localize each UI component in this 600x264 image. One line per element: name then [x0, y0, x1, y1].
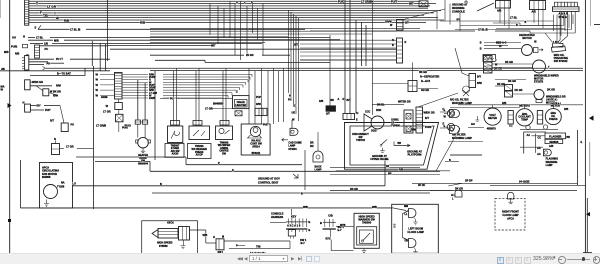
- connector C4 2-pin: [25, 80, 62, 90]
- svg-text:PU: PU: [45, 47, 49, 51]
- labels H FH C UE W: [288, 94, 296, 122]
- svg-text:R/B: R/B: [502, 102, 506, 105]
- svg-text:LT BL /B: LT BL /B: [70, 28, 81, 32]
- svg-text:602898: 602898: [42, 176, 51, 179]
- svg-text:A/R: A/R: [532, 11, 536, 14]
- svg-text:R/W: R/W: [256, 103, 262, 106]
- wires from CS1 right: [122, 74, 252, 101]
- svg-text:GR GR: GR GR: [421, 89, 429, 92]
- svg-text:DK GR: DK GR: [547, 89, 555, 92]
- svg-text:GR/B: GR/B: [101, 95, 108, 99]
- svg-text:J/B: J/B: [1, 68, 5, 71]
- status bar: [0, 253, 600, 264]
- svg-text:GROUND AT: GROUND AT: [452, 3, 468, 7]
- wire S bus: [95, 161, 440, 171]
- svg-text:A3CN: A3CN: [172, 153, 179, 156]
- labels LT GR/B PU/O: [96, 122, 131, 132]
- svg-text:LT BL /B: LT BL /B: [478, 29, 488, 32]
- svg-text:AFCA: AFCA: [507, 218, 514, 221]
- svg-text:BB: BB: [398, 142, 402, 145]
- svg-text:MOTOR: MOTOR: [522, 37, 531, 40]
- svg-text:S/I: S/I: [386, 165, 389, 168]
- svg-text:LT GR/BK: LT GR/BK: [361, 0, 374, 4]
- svg-text:PU: PU: [170, 97, 174, 100]
- svg-text:B: B: [308, 228, 310, 232]
- svg-text:DK BL: DK BL: [377, 104, 385, 107]
- svg-text:LIGHTER: LIGHTER: [235, 104, 246, 107]
- left sheet border: [0, 0, 9, 253]
- svg-text:PU/T: PU/T: [391, 0, 397, 4]
- svg-text:B: B: [480, 48, 482, 51]
- connector strip lower B: [416, 107, 435, 133]
- wires below comb: [455, 11, 575, 40]
- svg-text:TN5718: TN5718: [356, 139, 366, 142]
- component windshield DR motor lamp: [513, 89, 566, 105]
- svg-text:0N99004: 0N99004: [138, 163, 149, 166]
- wire long runs y66-71: [0, 67, 583, 72]
- svg-text:WARNING LAMP: WARNING LAMP: [452, 137, 472, 140]
- connector above SW2: [193, 121, 202, 127]
- svg-text:FH: FH: [288, 98, 292, 102]
- svg-text:1/B: 1/B: [44, 42, 48, 46]
- svg-text:2R GR: 2R GR: [246, 54, 254, 57]
- lamp left boom lower: [403, 238, 418, 254]
- component fuse F1: [106, 99, 123, 110]
- svg-text:SW 1: SW 1: [300, 238, 307, 242]
- right edge tick: [594, 24, 600, 26]
- svg-text:3E0898: 3E0898: [549, 140, 559, 144]
- wire boom feed: [403, 211, 409, 241]
- svg-text:E-7: E-7: [338, 228, 343, 232]
- svg-text:BN49555: BN49555: [213, 103, 224, 106]
- connector 3cell mid: [343, 112, 359, 122]
- svg-text:PU: PU: [71, 124, 75, 127]
- wires into CN12: [300, 40, 397, 60]
- svg-text:R7X: R7X: [326, 237, 331, 241]
- svg-text:GROUND AT GOV: GROUND AT GOV: [258, 177, 280, 181]
- svg-text:LAMP: LAMP: [315, 169, 322, 172]
- wire verticals to switch row: [174, 68, 284, 124]
- wires CS1 left stubs: [96, 72, 115, 97]
- svg-text:BK: BK: [331, 99, 335, 102]
- wire DK GR row: [495, 80, 526, 87]
- svg-text:S/T: S/T: [405, 22, 409, 25]
- svg-text:HI: HI: [534, 40, 537, 43]
- svg-text:BR: BR: [388, 172, 392, 175]
- wires meters top: [450, 102, 583, 111]
- lamp DP: [430, 180, 473, 201]
- svg-text:H: H: [289, 94, 291, 98]
- svg-text:PU/W: PU/W: [425, 126, 432, 129]
- svg-text:W/DK GR: W/DK GR: [32, 81, 43, 84]
- wire bundle mid-left: [150, 28, 420, 42]
- svg-text:LT GR: LT GR: [103, 110, 111, 114]
- svg-text:DK GR: DK GR: [497, 83, 505, 86]
- svg-text:H: H: [357, 112, 359, 115]
- svg-text:R/B: R/B: [564, 108, 568, 111]
- svg-text:A: A: [236, 1, 238, 4]
- zoom slider: [567, 259, 590, 260]
- svg-text:PU/T: PU/T: [45, 109, 51, 112]
- svg-text:AA: AA: [537, 153, 541, 156]
- switch SW3 wiper control: [216, 126, 233, 156]
- svg-text:M/B: M/B: [54, 38, 59, 42]
- component high speed solenoid: [152, 222, 190, 248]
- svg-text:FLASHER: FLASHER: [549, 134, 561, 138]
- svg-text:A/B: A/B: [549, 145, 554, 148]
- svg-text:R/Y: R/Y: [37, 105, 41, 108]
- svg-text:W/B: W/B: [303, 206, 308, 209]
- svg-text:BY: BY: [457, 18, 461, 21]
- labels A J S: [236, 1, 253, 4]
- svg-text:B: B: [308, 220, 310, 224]
- svg-text:BP8211: BP8211: [252, 152, 261, 155]
- svg-text:DR GR: DR GR: [350, 188, 358, 191]
- connector assembly A bottom: [270, 215, 310, 246]
- connector strip CS2 left of wiper: [484, 56, 503, 74]
- switch SW4 RH aux: [241, 124, 270, 155]
- svg-text:PRESS: PRESS: [549, 118, 558, 121]
- svg-text:R/B: R/B: [15, 53, 19, 56]
- wire LT BL /B: [38, 28, 305, 32]
- wire verticals top-right: [437, 0, 573, 43]
- meter eng oil press: [545, 102, 561, 125]
- svg-text:S/T: S/T: [326, 113, 330, 116]
- svg-text:B: B: [480, 41, 482, 44]
- connector CN10 small stack: [505, 85, 523, 98]
- meter volt: [468, 105, 501, 131]
- svg-text:R/B: R/B: [399, 169, 403, 172]
- connector X top: [419, 1, 428, 7]
- svg-text:LT GR: LT GR: [66, 145, 74, 149]
- diagonals to oil press sw: [545, 33, 568, 44]
- svg-text:N: N: [54, 138, 56, 141]
- svg-text:W/TER GR: W/TER GR: [398, 100, 411, 103]
- connector C5 2-pin: [23, 101, 61, 112]
- svg-text:H: H: [213, 236, 215, 239]
- right front flood lamp dashed box: [495, 192, 525, 230]
- svg-text:MM: MM: [404, 205, 408, 208]
- label PU: [160, 97, 232, 100]
- svg-text:R: R: [343, 98, 345, 101]
- svg-text:PU/T: PU/T: [256, 96, 262, 99]
- svg-text:T/B: T/B: [43, 14, 49, 18]
- svg-text:DK GR: DK GR: [419, 71, 427, 74]
- component heater door sw: [136, 137, 151, 165]
- svg-text:R/B: R/B: [140, 21, 146, 25]
- svg-text:W/B: W/B: [395, 223, 397, 228]
- svg-text:C/B: C/B: [328, 214, 333, 218]
- connector 2cell right upper: [455, 48, 482, 88]
- connector C2 small hatched: [4, 44, 48, 58]
- svg-text:1 B 2: 1 B 2: [553, 41, 559, 44]
- border markers: [8, 103, 594, 253]
- wires sw to right: [224, 241, 290, 255]
- connector assembly B bottom: [320, 214, 354, 251]
- svg-text:DK GR: DK GR: [515, 89, 523, 92]
- connector J2 left bar lower: [22, 56, 29, 71]
- svg-text:PU/B: PU/B: [11, 44, 17, 48]
- wires top-right feed: [440, 16, 565, 29]
- svg-text:LT BL: LT BL: [510, 16, 518, 20]
- labels under comb: [559, 11, 568, 18]
- svg-text:B/Y: B/Y: [477, 76, 481, 79]
- ground at gov control seat: [258, 174, 298, 184]
- svg-text:PLATFORM: PLATFORM: [408, 154, 422, 157]
- svg-text:R—DEFROSTER: R—DEFROSTER: [420, 76, 439, 79]
- component back lamp: [301, 132, 323, 196]
- svg-text:TN6000: TN6000: [362, 220, 372, 224]
- component SW I: [213, 236, 224, 255]
- component horn: [364, 0, 385, 133]
- connector heater top: [122, 120, 148, 138]
- svg-text:ET327B: ET327B: [534, 81, 543, 84]
- wire LT BL/B right: [310, 29, 530, 39]
- svg-text:UU: UU: [12, 35, 16, 39]
- svg-text:W7B: W7B: [340, 224, 346, 227]
- svg-text:P: P: [218, 161, 220, 165]
- console harness label: [271, 209, 292, 219]
- wire right E: [470, 130, 590, 185]
- svg-text:R/B: R/B: [319, 100, 323, 103]
- svg-text:LU: LU: [73, 183, 77, 186]
- svg-text:DF DF: DF DF: [418, 184, 426, 187]
- wires below disconnect: [330, 128, 460, 175]
- svg-text:S: S: [35, 26, 37, 30]
- connector strip C6: [255, 96, 267, 116]
- svg-text:SW: SW: [222, 153, 227, 156]
- svg-text:SW 6T9102: SW 6T9102: [554, 59, 568, 63]
- svg-text:W: W: [56, 16, 59, 20]
- svg-text:UPPER FRAME: UPPER FRAME: [370, 158, 389, 161]
- svg-text:LAMP: LAMP: [546, 164, 553, 167]
- scan edge marks: [0, 262, 1, 264]
- lamp air filter left: [443, 107, 455, 117]
- svg-text:DK GR: DK GR: [505, 61, 513, 64]
- component fan motor box: [40, 163, 77, 209]
- svg-text:LT BL: LT BL: [36, 36, 44, 40]
- svg-text:ATB14: ATB14: [252, 146, 260, 149]
- wire vertical runs x140-155: [138, 71, 155, 160]
- svg-text:T: T: [54, 11, 56, 15]
- svg-text:B: B: [449, 159, 451, 162]
- svg-text:B/W: B/W: [477, 82, 482, 85]
- wire vertical cluster x288: [289, 10, 299, 121]
- svg-text:DDD: DDD: [376, 109, 382, 112]
- wire P bus: [76, 157, 302, 165]
- air filter warning lamp label: [450, 86, 472, 105]
- wire vertical runs left: [92, 0, 107, 209]
- zoom in icon: [593, 256, 600, 264]
- wire labels top bundle: [36, 2, 146, 25]
- zoom out icon: [558, 256, 566, 264]
- component MFD oil pressure sw: [551, 46, 568, 63]
- wire LT BL: [12, 35, 330, 40]
- connector above SW1: [171, 121, 180, 127]
- svg-text:WARNING: WARNING: [452, 6, 465, 10]
- svg-text:LL: LL: [405, 213, 408, 216]
- component fuse F2: [103, 110, 123, 122]
- connector CN7 top: [496, 1, 511, 13]
- svg-text:M/B: M/B: [4, 51, 9, 54]
- lamp left boom upper: [404, 209, 418, 225]
- svg-text:AA: AA: [537, 147, 541, 150]
- wire solenoid to sw: [181, 230, 217, 249]
- zoom percent: [533, 256, 553, 262]
- wire vertical drops mid: [210, 1, 263, 60]
- svg-text:GO: GO: [471, 123, 475, 126]
- solenoid enclosure box: [142, 221, 198, 253]
- svg-text:W/T: W/T: [211, 45, 216, 48]
- svg-text:NA: NA: [61, 182, 65, 185]
- svg-text:W/DK GR: W/DK GR: [424, 112, 435, 115]
- wire verticals x345-372: [345, 0, 366, 114]
- connector above SW3: [220, 121, 229, 127]
- svg-text:B: B: [525, 21, 527, 24]
- ground at warning console: [452, 0, 494, 14]
- connector J1 left pin bar: [25, 0, 29, 25]
- wire W/B bottom bus labels: [303, 206, 377, 209]
- svg-text:B/T: B/T: [425, 117, 429, 120]
- connector comb CN9: [553, 2, 580, 11]
- svg-text:CCC: CCC: [365, 111, 371, 114]
- svg-text:F: F: [40, 11, 42, 15]
- connector strip CS1: [115, 73, 123, 100]
- lamp pair right D1: [440, 109, 460, 119]
- svg-text:B-7: B-7: [301, 241, 306, 245]
- label CH301: [391, 119, 400, 128]
- svg-text:DP DP: DP DP: [465, 180, 473, 183]
- svg-text:METER: METER: [551, 104, 560, 108]
- wire bundle top horizontal runs: [29, 1, 444, 22]
- svg-text:LT GR: LT GR: [47, 4, 57, 8]
- svg-text:GGG: GGG: [371, 130, 377, 133]
- svg-text:6T5858: 6T5858: [159, 245, 168, 248]
- wire W/T: [108, 43, 299, 47]
- svg-text:DK GR: DK GR: [455, 187, 463, 190]
- svg-text:WINDSHIELD DR: WINDSHIELD DR: [546, 96, 566, 99]
- svg-text:CC: CC: [538, 137, 542, 140]
- labels PU/O LT GR/BK PU/T W/T: [338, 0, 414, 6]
- svg-text:4R5870: 4R5870: [487, 127, 497, 131]
- wire feeds under CN7 CN8: [500, 8, 543, 29]
- svg-text:KEY: KEY: [291, 215, 297, 219]
- svg-text:AA: AA: [527, 134, 531, 137]
- svg-text:A3CA: A3CA: [167, 222, 174, 225]
- wires from J2: [15, 53, 110, 65]
- connector strip CN12: [392, 38, 407, 63]
- svg-text:P———: P———: [236, 245, 246, 248]
- svg-text:B: B: [320, 221, 322, 225]
- svg-text:UE: UE: [292, 111, 296, 115]
- svg-text:R/T: R/T: [50, 120, 54, 123]
- label MA left edge: [1, 85, 5, 92]
- component resistor block: [483, 55, 496, 62]
- svg-text:R: R: [405, 41, 407, 44]
- svg-text:C: C: [236, 89, 238, 93]
- svg-text:T: T: [36, 2, 38, 6]
- air filter warning lamp box: [448, 133, 483, 155]
- svg-text:B: B: [392, 44, 394, 47]
- svg-text:PU/O: PU/O: [122, 126, 128, 129]
- svg-text:PU / T: PU / T: [56, 58, 63, 61]
- component disconnect sw box: [345, 123, 439, 170]
- junction loops: [520, 125, 558, 130]
- svg-text:A 3 C A 1 5: A 3 C A 1 5: [287, 223, 301, 227]
- svg-text:DK GR: DK GR: [508, 80, 516, 83]
- connector strip lower A: [404, 110, 413, 133]
- svg-text:CONSOLE: CONSOLE: [452, 10, 465, 14]
- component defroster motor: [480, 34, 543, 55]
- svg-text:B: B: [516, 24, 518, 27]
- component solid block: [319, 35, 351, 116]
- svg-text:W/B: W/B: [203, 234, 208, 237]
- component cigar lighter: [205, 89, 249, 116]
- svg-text:B—TO BAT: B—TO BAT: [57, 72, 71, 76]
- svg-text:M: M: [222, 236, 224, 239]
- connector CN8 top: [530, 1, 546, 14]
- svg-text:R/B: R/B: [64, 18, 70, 22]
- svg-text:HI: HI: [499, 45, 502, 48]
- svg-text:PU/O: PU/O: [338, 0, 345, 4]
- meter eng coolant: [516, 104, 533, 126]
- lamp lower left: [443, 122, 455, 131]
- component oil press sw connector: [553, 41, 564, 47]
- wire steps y60: [155, 60, 396, 62]
- wire 2R GR: [150, 54, 290, 57]
- wire B TO BAT: [30, 68, 85, 75]
- svg-text:B: B: [301, 193, 303, 196]
- pagination controls: [236, 254, 326, 264]
- svg-text:W/T: W/T: [409, 3, 414, 6]
- cab dome lamp: [282, 120, 303, 151]
- svg-text:A: A: [338, 98, 340, 101]
- wire S riser: [35, 25, 42, 29]
- svg-text:DR GR: DR GR: [494, 68, 502, 71]
- component flashing warning lamp: [520, 147, 558, 167]
- svg-text:BB: BB: [566, 136, 570, 139]
- svg-text:R—HI B: R—HI B: [421, 80, 430, 83]
- switch SW2 washer press: [188, 126, 212, 159]
- wire M/B: [28, 38, 340, 42]
- svg-text:T08: T08: [256, 245, 261, 249]
- svg-text:FLOOD LAMP: FLOOD LAMP: [408, 231, 425, 234]
- svg-text:H: H: [23, 35, 25, 39]
- wire y155 right: [450, 154, 482, 156]
- component X box left: [52, 138, 94, 155]
- svg-text:CONTROL SEAT: CONTROL SEAT: [258, 180, 279, 184]
- svg-text:C: C: [294, 104, 296, 108]
- page layout icons: [0, 253, 600, 255]
- component wiper motor: [492, 60, 559, 84]
- svg-text:TVP800: TVP800: [391, 125, 400, 128]
- svg-text:W W B: W W B: [559, 15, 567, 19]
- svg-text:R/W: R/W: [56, 85, 61, 88]
- svg-text:R/B: R/B: [459, 102, 463, 105]
- flood lamp box left boom: [392, 204, 439, 253]
- component high speed warner sw: [336, 213, 379, 252]
- svg-text:A3 DP: A3 DP: [196, 154, 204, 157]
- right sheet border: [585, 0, 590, 253]
- wire DR GR: [330, 183, 577, 197]
- svg-text:9T4004: 9T4004: [288, 148, 297, 151]
- wire fan to right: [73, 156, 386, 186]
- svg-text:METER: METER: [488, 117, 497, 120]
- svg-text:PU: PU: [47, 62, 51, 65]
- switch SW1 ether aid: [165, 126, 184, 157]
- wire B bus: [152, 183, 430, 193]
- svg-text:TY258: TY258: [57, 186, 65, 189]
